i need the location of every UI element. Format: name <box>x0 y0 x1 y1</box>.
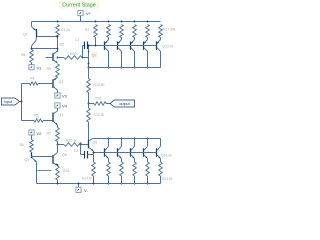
svg-text:R1 2k: R1 2k <box>61 28 70 32</box>
svg-text:Current Stage: Current Stage <box>62 3 96 9</box>
svg-text:R10: R10 <box>70 52 76 56</box>
svg-text:R4: R4 <box>30 77 35 81</box>
svg-text:V-: V- <box>84 188 88 193</box>
svg-text:Q8: Q8 <box>93 141 98 145</box>
svg-text:C2: C2 <box>74 149 78 153</box>
svg-text:Q14 x5: Q14 x5 <box>161 154 172 158</box>
svg-text:R12 2k: R12 2k <box>94 113 105 117</box>
svg-text:R16: R16 <box>63 169 69 173</box>
svg-text:R15 1k: R15 1k <box>66 139 77 143</box>
svg-text:Q7: Q7 <box>92 54 97 58</box>
svg-text:output: output <box>119 102 129 106</box>
svg-text:V2: V2 <box>37 131 43 136</box>
svg-text:R21 5k: R21 5k <box>162 177 173 181</box>
svg-text:V3: V3 <box>62 94 68 99</box>
svg-text:R14 1k: R14 1k <box>82 177 93 181</box>
svg-text:Q3: Q3 <box>59 113 64 117</box>
svg-text:Q5: Q5 <box>60 43 65 47</box>
svg-text:Q6: Q6 <box>62 153 67 157</box>
svg-text:Q13 x5: Q13 x5 <box>163 45 174 49</box>
svg-text:R11: R11 <box>96 97 102 101</box>
svg-text:V4: V4 <box>62 104 68 109</box>
svg-text:Q1: Q1 <box>23 33 28 37</box>
svg-text:R9: R9 <box>47 67 52 71</box>
svg-text:R13 50: R13 50 <box>94 83 105 87</box>
svg-text:V1: V1 <box>37 65 43 70</box>
svg-text:R6: R6 <box>20 143 25 147</box>
svg-text:C1: C1 <box>75 38 79 42</box>
svg-text:R3: R3 <box>85 28 89 32</box>
svg-text:R8: R8 <box>21 53 26 57</box>
svg-text:input: input <box>4 100 12 104</box>
svg-text:Q4: Q4 <box>25 158 30 162</box>
svg-text:V+: V+ <box>86 11 92 16</box>
svg-text:R2: R2 <box>47 132 52 136</box>
svg-text:R17 30k: R17 30k <box>163 28 176 32</box>
svg-text:Q2: Q2 <box>59 80 64 84</box>
svg-text:R5: R5 <box>34 113 39 117</box>
